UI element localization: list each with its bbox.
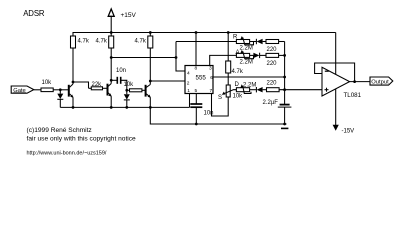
wire ground rail upper (60, 106, 189, 108)
svg-text:2.2M: 2.2M (243, 82, 256, 88)
wire output (350, 81, 370, 83)
wire Q3 collector column (149, 48, 151, 85)
svg-text:2.2M: 2.2M (240, 60, 253, 66)
svg-text:4.7k: 4.7k (78, 39, 90, 45)
svg-text:220: 220 (267, 47, 278, 53)
svg-text:10k: 10k (233, 94, 244, 100)
svg-text:-15V: -15V (342, 129, 355, 135)
input tag Gate (11, 86, 34, 94)
svg-text:10k: 10k (124, 82, 135, 88)
resistor 10k gate (41, 80, 53, 92)
resistor 220 release (266, 40, 285, 54)
svg-text:10k: 10k (42, 80, 53, 86)
node dot rail diode D2 (125, 106, 128, 109)
copyright text (27, 127, 137, 156)
node dot reset net / release branch (175, 56, 178, 59)
wire pin 1 ground (189, 94, 191, 108)
svg-text:22k: 22k (92, 82, 103, 88)
wire release row (176, 41, 236, 43)
node dot envelope/decay (283, 88, 286, 91)
potentiometer R release 2.2M (233, 35, 254, 52)
svg-text:4.7k: 4.7k (135, 39, 147, 45)
node dot rail/R4 (227, 31, 230, 34)
svg-text:220: 220 (267, 81, 278, 87)
wire envelope node column (284, 42, 286, 105)
resistor R3 4.7k (135, 33, 153, 49)
ground (281, 127, 288, 129)
capacitor 10n pin5 (190, 94, 213, 125)
svg-text:ADSR: ADSR (23, 9, 45, 18)
svg-text:6: 6 (210, 75, 213, 81)
transistor Q2 (108, 84, 112, 108)
output tag Output (370, 77, 393, 85)
wire Q1 collector column (72, 48, 74, 84)
wire release branch riser (176, 42, 185, 72)
svg-text:http://www.uni-bonn.de/~uzs159: http://www.uni-bonn.de/~uzs159/ (27, 150, 107, 156)
wire pin 2 trigger (150, 80, 185, 82)
node dot 10n / lower rail (195, 123, 198, 126)
node dot rail/R2 (110, 31, 113, 34)
resistor R4 4.7k (sustain divider) (226, 33, 244, 76)
node dot rail/pin8 (195, 31, 198, 34)
diode decay (250, 87, 267, 92)
wire reset net to pin 4 (111, 57, 176, 59)
svg-text:fair use only with this copyri: fair use only with this copyright notice (27, 136, 137, 143)
transistor Q3 (146, 85, 151, 108)
svg-text:D: D (235, 82, 240, 88)
svg-text:2.2µF: 2.2µF (263, 100, 279, 106)
node dot rail/R3 (149, 31, 152, 34)
node dot rail Q2 emitter (110, 106, 113, 109)
transistor Q1 (69, 84, 74, 107)
op-amp U2 TL081 (322, 67, 362, 99)
node dot rail Q3 emitter (149, 106, 152, 109)
svg-text:10n: 10n (116, 68, 126, 74)
wire pin 3 to attack row (210, 55, 237, 65)
wire pin 7 to sustain pot (212, 94, 229, 117)
wire Q2 collector column (110, 48, 112, 84)
node dot gate/diode D1 (59, 88, 62, 91)
svg-text:S: S (218, 95, 222, 101)
resistor R1 4.7k (71, 36, 90, 48)
svg-text:Gate: Gate (13, 88, 26, 94)
potentiometer A attack 2.2M (236, 50, 254, 66)
resistor 10k trigger (124, 82, 146, 92)
diode D1 clamp (57, 90, 63, 108)
node dot Q2 collector / 10n cap (110, 79, 113, 82)
capacitor 2.2uF envelope (263, 100, 292, 124)
wire op-amp V- to -15V (333, 89, 355, 135)
diode release (250, 39, 266, 44)
node dot Q3 collector / pin2 (149, 80, 152, 83)
resistor 220 attack (266, 53, 285, 67)
resistor R2 4.7k (96, 33, 114, 49)
wire ground rail lower (150, 107, 286, 124)
IC U1 555 (185, 65, 213, 94)
diode attack (250, 53, 266, 58)
svg-text:4.7k: 4.7k (96, 39, 108, 45)
wire gate input (34, 89, 41, 91)
svg-text:1: 1 (187, 88, 190, 94)
svg-text:(c)1999 René Schmitz: (c)1999 René Schmitz (27, 127, 92, 134)
wire +15V top rail (73, 33, 336, 37)
capacitor 10n coupling (111, 68, 127, 90)
node dot output/feedback (353, 80, 356, 83)
svg-text:4: 4 (187, 71, 190, 77)
svg-text:220: 220 (267, 61, 278, 67)
node dot diode D2 / 10k (125, 89, 128, 92)
wire pin 6 threshold (213, 76, 285, 78)
svg-text:555: 555 (196, 75, 207, 82)
wire op-amp V+ (335, 33, 337, 75)
node dot cap / lower rail (283, 123, 286, 126)
node dot rail Q1 emitter (72, 106, 75, 109)
svg-text:7: 7 (210, 88, 213, 94)
wire feedback loop (315, 63, 355, 82)
svg-text:Output: Output (371, 79, 389, 85)
svg-text:TL081: TL081 (344, 92, 362, 99)
resistor 220 decay (267, 81, 323, 92)
potentiometer S sustain 10k (218, 73, 243, 101)
+15V supply arrow (108, 9, 136, 33)
diode D2 clamp (124, 90, 130, 107)
wire Q1 collector to 22k (73, 82, 89, 88)
resistor 22k (89, 82, 108, 90)
svg-text:8: 8 (195, 65, 198, 71)
svg-text:5: 5 (195, 88, 198, 94)
node dot envelope/attack (283, 54, 286, 57)
wire pin 8 supply drop (195, 32, 197, 66)
potentiometer D decay 2.2M (235, 82, 257, 94)
node dot Q1 collector / 22k (72, 81, 75, 84)
svg-text:4.7k: 4.7k (232, 69, 244, 75)
svg-text:2: 2 (187, 81, 190, 87)
node dot Q2 collector / pin4 line (110, 56, 113, 59)
wire to Q1 base (53, 89, 69, 91)
svg-text:+15V: +15V (121, 12, 137, 19)
node dot envelope/threshold (283, 76, 286, 79)
svg-text:3: 3 (209, 65, 212, 71)
